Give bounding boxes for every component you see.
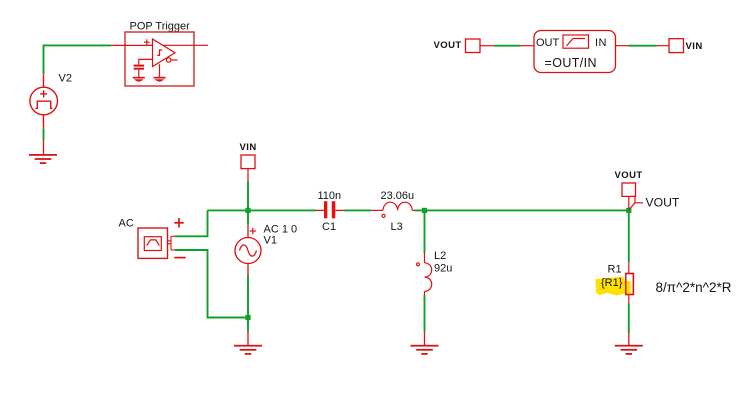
svg-text:V1: V1 xyxy=(264,235,277,247)
wire probe left xyxy=(480,45,494,47)
svg-text:V2: V2 xyxy=(59,73,72,85)
wire probe right xyxy=(616,45,629,47)
svg-text:L2: L2 xyxy=(434,250,446,262)
wire top rail right xyxy=(415,209,629,211)
wire VOUT terminal lead xyxy=(628,196,630,208)
wire POP trigger input lead xyxy=(111,44,153,46)
terminal VOUT (probe) xyxy=(466,39,481,53)
POP trigger comparator xyxy=(153,39,178,77)
AC plus marker xyxy=(174,218,183,227)
inductor L3 xyxy=(371,202,415,217)
ground (POP comparator) xyxy=(154,77,166,82)
wire V2 bottom to ground xyxy=(43,128,45,141)
svg-text:110n: 110n xyxy=(318,190,342,202)
wire AC plus to rail xyxy=(175,210,208,236)
ground (L2) xyxy=(411,345,439,355)
wire L2 bottom xyxy=(424,295,426,332)
junction node VOUT xyxy=(626,208,631,213)
net flag VOUT xyxy=(629,196,643,209)
ground (V1) xyxy=(234,345,262,355)
terminal VOUT xyxy=(622,183,636,196)
svg-text:VOUT: VOUT xyxy=(646,196,680,210)
ground (R1) xyxy=(615,345,643,355)
wire V1 bottom xyxy=(247,275,249,318)
wire top rail mid xyxy=(344,209,371,211)
POP trigger output wire xyxy=(163,44,208,46)
svg-text:IN: IN xyxy=(595,37,607,49)
terminal VIN (probe) xyxy=(669,39,684,53)
ground (V2) xyxy=(29,154,57,164)
wire V1 ground lead xyxy=(247,318,249,332)
wire VOUT to R1 xyxy=(628,210,630,262)
svg-text:VIN: VIN xyxy=(686,41,703,52)
V1 plus marker xyxy=(250,228,256,234)
junction node VIN rail xyxy=(245,208,250,213)
wire L2 top xyxy=(424,210,426,253)
voltage source V1 xyxy=(235,225,261,275)
svg-text:VOUT: VOUT xyxy=(615,170,643,181)
capacitor C1 xyxy=(316,201,344,218)
voltage source V2 xyxy=(30,74,58,128)
AC source block xyxy=(138,228,168,258)
value highlight {R1} xyxy=(596,277,631,296)
POP trigger plus marker xyxy=(144,39,150,45)
svg-text:23.06u: 23.06u xyxy=(381,190,415,202)
probe block OUT/IN xyxy=(534,31,616,73)
wire AC minus to bottom rail xyxy=(175,250,248,318)
junction node bottom rail xyxy=(245,315,250,320)
wire V2 top to POP trigger input xyxy=(44,45,112,74)
AC source fork xyxy=(168,236,176,250)
svg-text:=OUT/IN: =OUT/IN xyxy=(545,56,597,70)
wire R1 bottom xyxy=(628,295,630,304)
svg-text:{R1}: {R1} xyxy=(601,277,623,289)
junction node L2 tap xyxy=(422,208,427,213)
wire V1 top xyxy=(247,210,249,224)
svg-text:8/π^2*n^2*R: 8/π^2*n^2*R xyxy=(656,280,732,295)
svg-text:C1: C1 xyxy=(322,221,336,233)
svg-text:92u: 92u xyxy=(434,262,452,274)
terminal VIN xyxy=(241,155,255,169)
AC minus marker xyxy=(174,257,185,259)
svg-text:VOUT: VOUT xyxy=(434,40,462,51)
POP trigger block U1 xyxy=(125,32,194,86)
inductor L2 xyxy=(417,253,432,295)
wire top rail left xyxy=(208,209,317,211)
svg-text:POP Trigger: POP Trigger xyxy=(130,21,191,33)
svg-text:R1: R1 xyxy=(608,263,622,275)
svg-text:L3: L3 xyxy=(391,221,403,233)
svg-text:VIN: VIN xyxy=(240,142,257,153)
POP trigger capacitor xyxy=(139,59,153,76)
ground (POP cap) xyxy=(133,77,145,82)
svg-text:OUT: OUT xyxy=(536,37,560,49)
svg-text:AC: AC xyxy=(119,218,134,230)
wire VIN terminal lead xyxy=(247,169,249,181)
resistor R1 xyxy=(626,274,634,295)
